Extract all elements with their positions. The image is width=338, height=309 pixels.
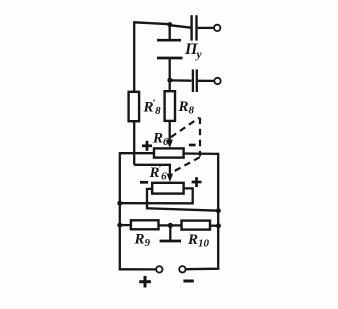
polarity − left of R'6 xyxy=(140,181,148,184)
polarity + below left terminal xyxy=(139,276,151,288)
mechanical link (dashed), down to R'6 wiper xyxy=(172,157,200,172)
wire R8 bottom to R6 wiper xyxy=(169,121,171,140)
terminal 2 (open circle) xyxy=(214,78,220,84)
wire R6 left lead to left rail xyxy=(120,152,154,154)
wire R6 right lead to right rail xyxy=(184,152,219,155)
resistor R'8 xyxy=(129,92,140,121)
wire center tap down xyxy=(169,227,171,240)
polarity + left of R6 xyxy=(142,141,152,151)
wire R'6 right lead over to left rail (upper hairpin) xyxy=(120,188,193,203)
wire R'8 bottom down to link corner xyxy=(133,121,135,165)
wire lower plate down to node B xyxy=(169,59,171,80)
resistor R9 xyxy=(131,220,159,229)
wire capacitor C2 to terminal 2 xyxy=(198,80,214,82)
resistor R8 xyxy=(165,91,175,121)
wire node A to capacitor C1 xyxy=(170,25,191,28)
polarity + right of R'6 xyxy=(192,177,202,187)
wire capacitor C1 to terminal 1 xyxy=(198,27,214,29)
R'6 wiper arrowhead xyxy=(167,174,173,182)
mechanical link (dashed vertical) xyxy=(199,118,201,157)
R6 wiper arrowhead xyxy=(167,140,173,149)
wire R'6 left lead over to right rail (lower hairpin) xyxy=(147,189,218,211)
node (dot on left rail, R9 lead) xyxy=(117,223,122,228)
node (dot on right rail, lower hairpin) xyxy=(216,208,221,213)
wire node B down to resistor R8 xyxy=(169,80,171,91)
terminal 1 (open circle) xyxy=(214,25,220,31)
capacitor C1 (output capacitor, top) xyxy=(192,15,197,40)
mechanical link (dashed), R6 wiper to upper corner xyxy=(171,118,200,138)
node (dot on right rail at R10) xyxy=(216,223,221,228)
chassis bar (center tap bar) xyxy=(160,240,181,243)
resistor R10 xyxy=(182,221,211,230)
wire top horizontal from left branch corner to node A xyxy=(134,22,170,24)
polarity − below right terminal xyxy=(183,280,193,283)
polarity − right of R6 xyxy=(189,144,196,147)
terminal − (open circle) xyxy=(179,266,185,272)
wire R9 to center node xyxy=(159,224,169,226)
vibrating converter Пу upper plate xyxy=(157,39,181,42)
terminal + (open circle) xyxy=(156,266,162,272)
wire right rail xyxy=(186,153,218,269)
node A (junction dot top) xyxy=(167,22,172,27)
capacitor C2 (output capacitor, lower) xyxy=(193,69,197,92)
potentiometer R'6 xyxy=(152,183,183,194)
potentiometer R6 xyxy=(154,148,184,157)
wire center node to R10 xyxy=(173,224,182,226)
vibrating converter Пу lower plate xyxy=(157,57,183,60)
node B (junction dot) xyxy=(167,78,172,83)
wire node A down to vibrating converter upper plate xyxy=(169,25,171,39)
node (dot on left rail, upper hairpin) xyxy=(117,201,122,206)
node center tap (dot between R9 and R10) xyxy=(168,223,173,228)
wire left rail xyxy=(120,152,156,269)
wire link to R'6 wiper xyxy=(134,165,170,174)
wire left rail to R9 xyxy=(120,224,131,226)
wire R10 to right rail xyxy=(210,224,219,226)
wire left branch vertical (top corner down to R'8) xyxy=(133,21,135,92)
wire node B to capacitor C2 xyxy=(170,79,192,82)
